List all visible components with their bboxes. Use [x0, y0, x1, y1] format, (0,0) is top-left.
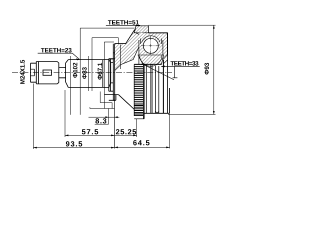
snap ring groove dip	[155, 112, 158, 113]
dia 93 dim line	[213, 25, 215, 114]
dia 102 vertical line pair	[70, 28, 80, 115]
TEETH=51 leader	[106, 25, 144, 29]
staircase connector 2	[90, 107, 115, 124]
dim text 93.5	[66, 141, 82, 146]
boot groove upper lip	[109, 53, 116, 59]
mouth verticals lower	[146, 64, 159, 113]
cotter pin hole	[43, 70, 52, 75]
spline chamfer diagonal	[144, 65, 175, 80]
ball	[143, 38, 158, 53]
extension 25.25 right	[136, 119, 138, 137]
bell bore line	[119, 45, 121, 70]
dim 57.5	[65, 134, 115, 136]
dim text 8.3	[95, 118, 106, 123]
dim 93.5	[33, 147, 114, 149]
ABS ring teeth stripes	[134, 64, 143, 104]
TEETH=33 leader	[161, 65, 200, 67]
label TEETH=33 (race spline)	[171, 61, 199, 66]
extension 64.5 right	[169, 114, 171, 148]
ring side edges	[134, 64, 144, 118]
housing wall around ball chamber hatch	[139, 33, 168, 60]
bell outer edge upper	[115, 30, 135, 44]
boot groove lower lip	[105, 95, 119, 101]
barrel (inner joint body)	[66, 60, 111, 88]
race arc under ball	[140, 55, 163, 67]
neck before housing	[111, 63, 114, 83]
label TEETH=51 (ABS ring)	[108, 20, 139, 24]
top bracket B2	[92, 38, 118, 44]
stub shaft threaded section	[31, 63, 37, 82]
label M24X1.5 thread spec	[20, 60, 25, 84]
dim text 25.25	[116, 129, 136, 134]
race bottom edge	[141, 63, 162, 65]
dim text 64.5	[133, 140, 149, 145]
label dia 102	[73, 63, 78, 78]
ABS ring section block	[134, 26, 148, 33]
mouth chamfer	[163, 55, 168, 64]
label dia 67.1	[98, 63, 103, 80]
cage arc above ball	[142, 36, 160, 43]
label dia 93	[205, 63, 210, 75]
stub center hole	[31, 69, 35, 76]
TEETH=23 leader	[38, 53, 80, 59]
ring top extension to dia93	[148, 24, 215, 26]
label TEETH=23 (stub spline)	[41, 48, 72, 53]
bell outer edge lower	[118, 95, 134, 110]
centerline	[12, 72, 172, 74]
dia 67.1 lines	[92, 38, 104, 109]
inner race wedge	[138, 55, 164, 64]
dia 83 line	[88, 56, 90, 91]
cage section left line	[139, 39, 141, 65]
dia93 bottom extension	[168, 113, 216, 115]
main extension x=114.5	[114, 100, 116, 148]
boot seat disc	[109, 59, 114, 91]
L-shaped leader	[173, 66, 178, 77]
housing front face	[113, 44, 114, 101]
dim text 57.5	[82, 129, 98, 134]
label dia 83	[82, 67, 87, 79]
top bracket B1	[80, 27, 134, 29]
dim 8.3	[89, 116, 120, 118]
housing body right part	[144, 33, 169, 114]
dim 64.5	[115, 146, 170, 148]
staircase connector 1	[100, 92, 112, 109]
top bracket B3	[104, 41, 114, 43]
cage section right line	[162, 39, 163, 60]
ring block bottom edge	[140, 34, 145, 36]
bell wall hatch upper	[115, 30, 144, 71]
extension line 93.5 left	[32, 84, 34, 150]
extension line 57.5 left	[64, 90, 66, 137]
ball crosshair	[142, 37, 161, 56]
neck between stub and barrel	[59, 67, 66, 77]
dim 25.25	[115, 134, 137, 136]
stub shaft body	[36, 62, 59, 84]
